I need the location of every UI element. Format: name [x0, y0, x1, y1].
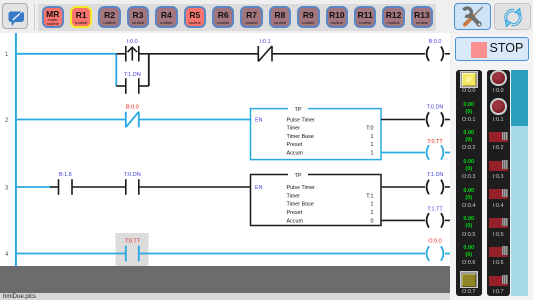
input I:0.5 switch: [489, 218, 509, 228]
output O:0.7 pushbutton (olive): [460, 271, 478, 288]
svg-text:Pulse Timer: Pulse Timer: [287, 118, 316, 124]
output O:0.5 value: [456, 216, 482, 230]
rung 4 selection highlight: [116, 233, 149, 266]
contact T:0.DN (rung3): [126, 179, 139, 195]
rung 3 wire (energized) from rail: [17, 186, 50, 188]
svg-text:1: 1: [371, 142, 374, 148]
svg-text:1: 1: [5, 52, 9, 58]
label O:0.4: [456, 203, 482, 209]
svg-text:B:0.0: B:0.0: [126, 105, 139, 111]
svg-text:1: 1: [371, 202, 374, 208]
routine buttons panel: [38, 4, 436, 31]
routine button R7: [240, 6, 263, 29]
wrench: [463, 8, 471, 16]
right panel background: [450, 33, 533, 300]
contact T:0.TT (energized): [126, 246, 139, 262]
rung 3 top output wire: [381, 186, 425, 188]
stub after O:0.0 (energized): [445, 253, 450, 255]
stub after T:1.TT: [445, 219, 450, 221]
routine button R3: [127, 6, 150, 29]
svg-text:T:0.DN: T:0.DN: [427, 105, 444, 111]
routine button R2: [98, 6, 121, 29]
rung 3 bottom output wire: [381, 219, 425, 221]
toolbar separator: [34, 4, 35, 30]
rung 1 branch right vertical: [148, 54, 150, 86]
svg-text:EN: EN: [255, 185, 263, 191]
tools (wrench/screwdriver) button: [454, 3, 491, 31]
rung 1 wire to coil: [272, 53, 425, 55]
input I:0.7 switch: [489, 276, 509, 286]
svg-text:1: 1: [371, 210, 374, 216]
svg-text:T:0.DN: T:0.DN: [124, 172, 141, 178]
routine button R10: [326, 6, 349, 29]
edit (comment/pencil) button top-left: [2, 3, 28, 29]
svg-text:B:1.8: B:1.8: [59, 172, 72, 178]
output O:0.1 value: [456, 102, 482, 116]
refresh button: [494, 3, 532, 31]
label I:0.6: [487, 260, 511, 266]
routine button R4: [155, 6, 178, 29]
stub after T:0.TT: [445, 152, 450, 154]
hmi scroll column light: [511, 126, 528, 296]
svg-text:1: 1: [371, 150, 374, 156]
left power rail: [15, 30, 17, 266]
rung 2 top output wire: [381, 119, 425, 121]
svg-text:O:0.0: O:0.0: [428, 239, 441, 245]
svg-text:Timer Base: Timer Base: [287, 134, 314, 140]
svg-text:T:1.TT: T:1.TT: [427, 206, 443, 212]
svg-text:T:0.TT: T:0.TT: [427, 139, 443, 145]
coil T:1.DN: [427, 180, 444, 195]
input I:0.3 switch: [489, 161, 509, 171]
output O:0.3 value: [456, 159, 482, 173]
output O:0.6 value: [456, 245, 482, 259]
svg-text:Accum: Accum: [287, 218, 304, 224]
label O:0.2: [456, 145, 482, 151]
rung 3 wire to timer block: [139, 186, 251, 188]
screwdriver: [474, 7, 483, 16]
branch bottom left wire: [116, 85, 126, 87]
branch bottom right wire: [139, 85, 149, 87]
label O:0.7: [456, 289, 482, 295]
routine button R5: [184, 6, 207, 29]
output column panel: [456, 70, 482, 296]
coil T:1.TT: [427, 213, 444, 228]
stub after T:0.DN: [445, 119, 450, 121]
taskbar: [0, 266, 450, 293]
routine button R12: [382, 6, 405, 29]
svg-text:3: 3: [5, 186, 9, 192]
rung 2 wire (energized): [17, 119, 126, 121]
contact I:0.1 (NC): [258, 46, 272, 62]
routine button R1: [70, 6, 93, 29]
label I:0.4: [487, 203, 511, 209]
svg-text:Timer: Timer: [287, 126, 301, 132]
label O:0.5: [456, 232, 482, 238]
svg-text:Timer: Timer: [287, 194, 301, 200]
routine button R13: [411, 6, 434, 29]
label O:0.3: [456, 174, 482, 180]
label I:0.2: [487, 145, 511, 151]
rung 1 wire (energized) from rail to branch: [17, 53, 116, 55]
svg-text:2: 2: [5, 118, 9, 124]
svg-text:EN: EN: [255, 118, 263, 124]
label I:0.3: [487, 174, 511, 180]
STOP button: [455, 37, 529, 62]
timer TP block T:0 (energized): [251, 106, 382, 160]
routine button R6: [212, 6, 235, 29]
output O:0.2 value: [456, 130, 482, 144]
label I:0.1: [487, 117, 511, 123]
contact B:1.8: [59, 179, 73, 195]
svg-text:Accum: Accum: [287, 150, 304, 156]
label I:0.5: [487, 232, 511, 238]
coil B:0.0: [427, 47, 444, 62]
svg-text:0: 0: [371, 218, 374, 224]
contact I:0.0 (OSR rising edge): [126, 46, 139, 62]
label O:0.6: [456, 260, 482, 266]
routine button MR: [42, 6, 65, 29]
svg-text:TP: TP: [294, 107, 301, 113]
coil O:0.0 (energized): [427, 246, 444, 261]
rung 3 wire between contacts: [72, 186, 126, 188]
output O:0.0 pushbutton (lit yellow): [460, 71, 478, 88]
label O:0.1: [456, 117, 482, 123]
svg-text:Preset: Preset: [287, 210, 303, 216]
toolbar background: [0, 0, 533, 33]
coil T:0.DN: [427, 112, 444, 127]
label I:0.7: [487, 289, 511, 295]
input I:0.1 pilot light: [490, 98, 507, 115]
routine button R9: [297, 6, 320, 29]
routine button R11: [354, 6, 377, 29]
coil T:0.TT (energized): [427, 145, 444, 160]
rung 2 wire to timer block: [139, 119, 251, 121]
input column panel: [487, 70, 511, 296]
contact T:1.DN: [126, 78, 139, 94]
ladder area: [0, 33, 450, 266]
svg-text:T:0: T:0: [366, 126, 373, 132]
input I:0.4 switch: [489, 189, 509, 199]
svg-text:T:0.TT: T:0.TT: [125, 239, 141, 245]
svg-text:1: 1: [371, 134, 374, 140]
hmi scroll column dark: [511, 70, 528, 127]
svg-text:T:1: T:1: [366, 194, 373, 200]
svg-text:I:0.1: I:0.1: [260, 39, 271, 45]
svg-text:B:0.0: B:0.0: [429, 39, 442, 45]
rung 1 stub after coil: [445, 53, 450, 55]
wire to contact I:0.0: [116, 53, 126, 55]
stub after T:1.DN: [445, 186, 450, 188]
input I:0.0 pilot light: [490, 70, 507, 87]
input I:0.6 switch: [489, 247, 509, 257]
svg-text:TP: TP: [294, 173, 301, 179]
svg-text:Pulse Timer: Pulse Timer: [287, 185, 316, 191]
rung 1 wire to contact I:0.1: [149, 53, 258, 55]
routine button R8: [269, 6, 292, 29]
timer TP block T:1: [251, 172, 382, 226]
rung 4 wire to coil (energized): [139, 253, 425, 255]
rung 1 branch left vertical (energized): [115, 54, 117, 86]
status bar: [0, 293, 533, 300]
contact B:0.0 (NC, energized): [126, 112, 139, 128]
svg-text:T:1.DN: T:1.DN: [427, 172, 444, 178]
svg-text:T:1.DN: T:1.DN: [124, 72, 141, 78]
svg-text:I:0.0: I:0.0: [127, 39, 138, 45]
label O:0.0: [456, 88, 482, 94]
rung 2 bottom output wire (energized): [381, 152, 425, 154]
rung 4 wire (energized): [17, 253, 126, 255]
output O:0.4 value: [456, 188, 482, 202]
svg-text:Timer Base: Timer Base: [287, 202, 314, 208]
rung 3 wire to contact B:1.8: [50, 186, 59, 188]
wire from I:0.0 to branch right: [139, 53, 149, 55]
input I:0.2 switch: [489, 132, 509, 142]
label I:0.0: [487, 88, 511, 94]
svg-text:Preset: Preset: [287, 142, 303, 148]
svg-text:4: 4: [5, 252, 9, 258]
